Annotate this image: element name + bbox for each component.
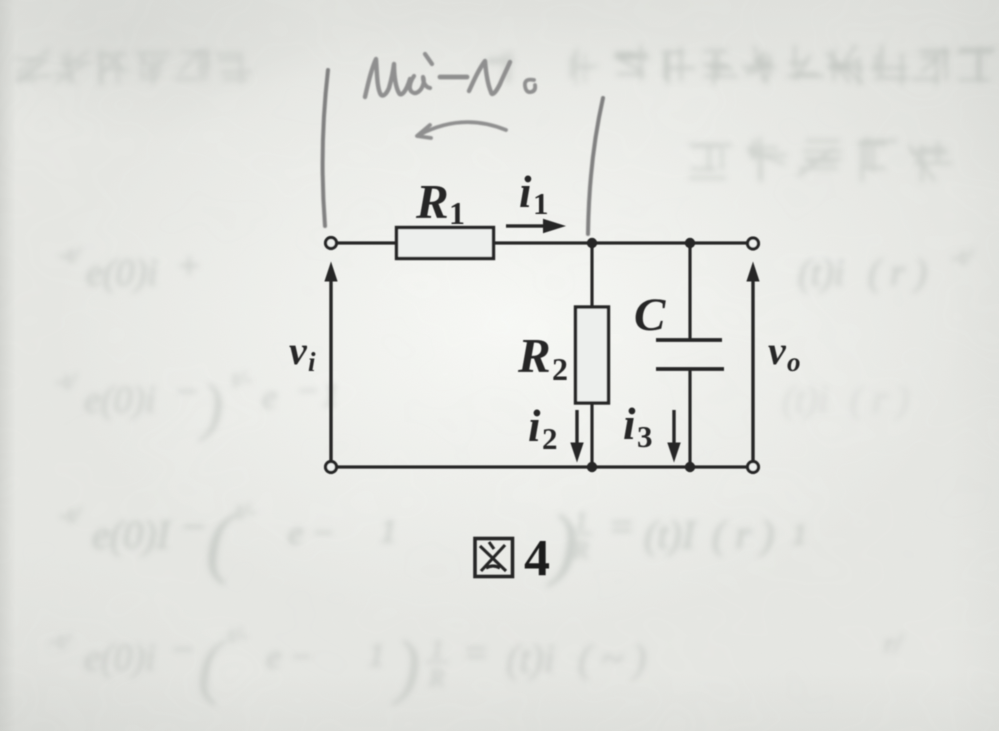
svg-text:i: i	[528, 401, 541, 451]
handwriting i accent	[425, 54, 432, 64]
svg-text:o: o	[787, 347, 801, 377]
svg-text:e(0)i: e(0)i	[84, 379, 156, 421]
svg-text:e(0)i: e(0)i	[86, 252, 158, 294]
svg-text:): )	[198, 371, 223, 442]
svg-text:e(0)I: e(0)I	[92, 512, 171, 557]
wire: bottom rail	[336, 465, 748, 468]
wire: R2 branch upper	[590, 243, 593, 307]
handwriting v_o v	[469, 61, 510, 94]
svg-text:r/: r/	[884, 629, 904, 658]
pencil bracket left	[323, 70, 328, 226]
svg-text:(t)I: (t)I	[644, 512, 697, 557]
svg-text:−: −	[296, 373, 319, 410]
labels (printed, serif italic)	[289, 167, 801, 456]
wire: C branch lower	[688, 369, 691, 467]
terminal top-left	[326, 238, 337, 249]
svg-text:R: R	[517, 328, 551, 383]
svg-text:=: =	[462, 630, 489, 675]
node bottom-R2	[587, 462, 597, 472]
wire: C branch upper	[688, 243, 691, 340]
handwriting i loop	[410, 76, 430, 93]
svg-text:-t/: -t/	[56, 368, 77, 393]
bleed kanji row 1 right	[614, 45, 995, 85]
svg-text:-t/: -t/	[60, 242, 81, 267]
svg-text:i: i	[623, 399, 636, 449]
bleed formula row B left	[56, 366, 339, 442]
bleed kanji row 1 middle faint	[483, 48, 598, 85]
svg-text:+: +	[176, 245, 202, 287]
svg-text:R: R	[572, 537, 588, 564]
terminal bottom-right	[748, 462, 759, 473]
bleed formula row B right (very faint)	[782, 379, 909, 421]
node top-R2	[587, 238, 597, 248]
svg-text:R: R	[428, 665, 444, 692]
svg-text:v: v	[289, 328, 308, 373]
caption: glyph ZU (figure) drawn as strokes	[475, 539, 513, 577]
arrow i2 (down)	[570, 410, 583, 463]
svg-text:-t/: -t/	[50, 628, 71, 653]
bleed kanji row 1 left	[15, 48, 252, 85]
resistor R1	[397, 228, 494, 259]
bleed formula row D	[50, 622, 904, 706]
svg-text:=: =	[608, 504, 635, 549]
svg-text:−: −	[180, 504, 207, 549]
handwriting v_i	[365, 59, 410, 97]
svg-text:1: 1	[575, 508, 588, 535]
svg-text:3: 3	[637, 419, 653, 454]
pencil bracket right	[588, 98, 603, 234]
svg-text:(t)i: (t)i	[782, 379, 828, 421]
svg-text:( ~ ): ( ~ )	[578, 636, 646, 681]
svg-text:t/-: t/-	[232, 366, 252, 391]
svg-text:(t)i: (t)i	[506, 636, 555, 681]
svg-text:(t)i: (t)i	[798, 252, 844, 294]
terminal bottom-left	[326, 462, 337, 473]
bleed formula row C	[60, 498, 807, 588]
svg-text:i: i	[519, 167, 532, 217]
svg-text:v: v	[768, 328, 787, 373]
svg-text:−: −	[170, 629, 196, 671]
bleed formula row A	[60, 242, 973, 294]
node bottom-C	[685, 462, 695, 472]
arrow i1	[506, 219, 566, 234]
svg-text:4: 4	[524, 530, 550, 587]
handwriting minus	[440, 75, 467, 80]
handwriting o subscript	[525, 80, 535, 93]
svg-text:(: (	[198, 626, 226, 706]
svg-text:( r ): ( r )	[850, 379, 909, 421]
svg-text:t/-: t/-	[228, 622, 248, 647]
svg-text:( r ): ( r )	[868, 252, 927, 294]
resistor R2	[576, 307, 609, 403]
svg-text:(: (	[206, 498, 236, 585]
arrow vo (up)	[746, 262, 759, 462]
svg-text:1: 1	[792, 518, 807, 551]
svg-text:2: 2	[552, 351, 568, 387]
svg-text:i: i	[308, 347, 316, 377]
capacitor C plates	[656, 340, 724, 369]
svg-text:e −: e −	[288, 515, 335, 552]
svg-text:e −: e −	[266, 639, 313, 676]
svg-text:2: 2	[542, 421, 558, 456]
svg-text:( r ): ( r )	[712, 512, 774, 557]
pencil arrowhead	[417, 125, 431, 138]
pencil curved arrow	[419, 122, 506, 135]
svg-text:-t/: -t/	[952, 244, 973, 269]
svg-text:e(0)i: e(0)i	[84, 637, 156, 679]
wire: R2 branch lower	[590, 403, 593, 467]
svg-text:e: e	[262, 379, 277, 416]
svg-text:1: 1	[533, 186, 549, 221]
svg-text:C: C	[634, 289, 666, 341]
svg-text:R: R	[415, 174, 449, 229]
wire: top rail	[336, 241, 748, 244]
svg-text:1: 1	[449, 195, 465, 231]
svg-text:−: −	[174, 371, 200, 413]
svg-text:1: 1	[431, 636, 444, 663]
svg-text:-t/: -t/	[60, 502, 81, 527]
bleed kanji row 2	[689, 137, 952, 182]
svg-text:): )	[392, 626, 420, 706]
arrow i3 (down)	[667, 410, 680, 463]
node top-C	[685, 238, 695, 248]
svg-text:t/-: t/-	[236, 498, 256, 523]
svg-text:1: 1	[380, 513, 397, 550]
svg-text:1: 1	[368, 637, 385, 674]
arrow vi (up)	[324, 262, 337, 462]
terminal top-right	[748, 238, 759, 249]
